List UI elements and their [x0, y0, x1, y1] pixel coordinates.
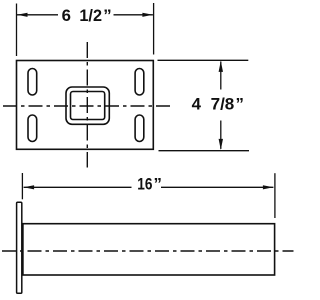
svg-text:”: ”: [154, 174, 162, 193]
svg-text:”: ”: [236, 95, 244, 114]
svg-text:16: 16: [137, 174, 152, 193]
svg-text:6: 6: [62, 6, 71, 25]
svg-text:4: 4: [192, 95, 202, 114]
svg-text:”: ”: [103, 6, 111, 25]
svg-text:1/2: 1/2: [79, 6, 102, 25]
svg-text:7/8: 7/8: [211, 95, 235, 114]
